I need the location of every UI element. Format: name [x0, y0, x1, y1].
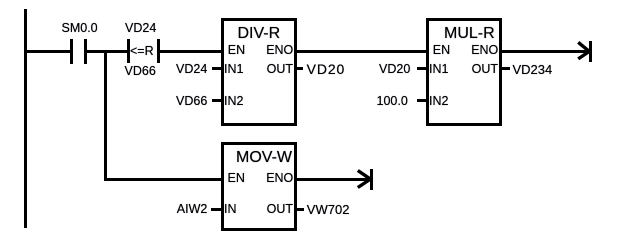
pin ENO (MUL-R) — [471, 44, 498, 57]
wire DIV-R ENO to MUL-R EN — [297, 50, 426, 53]
wire stub 100.0 to IN2 — [417, 99, 426, 102]
pin EN (MOV-W) — [228, 172, 245, 185]
label VD66 below compare contact — [125, 65, 156, 78]
operand VD24 at DIV-R IN1 — [176, 63, 207, 76]
wire MOV-W ENO to arrow rung 2 — [297, 178, 371, 181]
pin ENO (DIV-R) — [266, 44, 293, 57]
box MOV-W U3 — [221, 142, 297, 231]
wire branch vertical to rung 2 — [104, 50, 107, 181]
pin IN1 (MUL-R) — [429, 63, 448, 76]
wire stub MUL-R OUT — [502, 67, 510, 70]
pin IN1 (DIV-R) — [224, 63, 243, 76]
operand VD234 at MUL-R OUT — [513, 63, 553, 76]
wire stub VD66 to IN2 — [212, 99, 221, 102]
pin IN (MOV-W) — [224, 203, 237, 216]
pin EN (MUL-R) — [433, 44, 450, 57]
contact SM0.0 right bar — [84, 39, 87, 64]
pin IN2 (MUL-R) — [429, 95, 448, 108]
operand VD20 at MUL-R IN1 — [379, 63, 410, 76]
pin ENO (MOV-W) — [266, 172, 293, 185]
title DIV-R — [238, 25, 281, 42]
wire contact to compare contact — [87, 50, 127, 53]
contact SM0.0 left bar — [70, 39, 73, 64]
wire stub MOV-W OUT — [296, 208, 304, 211]
pin OUT (MUL-R) — [472, 63, 498, 76]
operand 100.0 at MUL-R IN2 — [377, 95, 408, 108]
operand VD66 at DIV-R IN2 — [176, 95, 207, 108]
pin IN2 (DIV-R) — [224, 95, 243, 108]
pin OUT (DIV-R) — [267, 63, 293, 76]
arrowhead rung 1 — [570, 36, 594, 66]
arrow terminal bar rung 1 — [589, 41, 592, 62]
pin OUT (MOV-W) — [267, 203, 293, 216]
arrowhead rung 2 — [352, 162, 376, 192]
wire rung 2 branch to MOV-W EN — [104, 178, 221, 181]
wire stub VD24 to IN1 — [212, 67, 221, 70]
compare contact right bar — [157, 39, 160, 63]
wire MUL-R ENO to right arrow — [502, 50, 589, 53]
title MOV-W — [236, 149, 292, 166]
operand VD20 at DIV-R OUT — [307, 63, 346, 76]
wire stub DIV-R OUT — [297, 67, 303, 70]
wire compare contact to DIV-R EN — [160, 50, 221, 53]
operand VW702 at MOV-W OUT — [307, 203, 350, 216]
box MUL-R U2 — [426, 18, 502, 126]
compare contact operator <=R — [130, 45, 154, 58]
wire rail to contact SM0.0 — [27, 50, 70, 53]
box DIV-R U1 — [221, 18, 297, 126]
wire stub AIW2 to IN — [211, 208, 221, 211]
title MUL-R — [444, 25, 495, 42]
arrow terminal bar rung 2 — [370, 169, 373, 190]
label VD24 above compare contact — [125, 22, 156, 35]
label SM0.0 — [62, 22, 98, 35]
operand AIW2 at MOV-W IN — [177, 203, 208, 216]
compare contact left bar — [127, 39, 130, 63]
left power rail — [24, 9, 27, 228]
wire stub VD20 to IN1 — [417, 67, 426, 70]
pin EN (DIV-R) — [228, 44, 245, 57]
